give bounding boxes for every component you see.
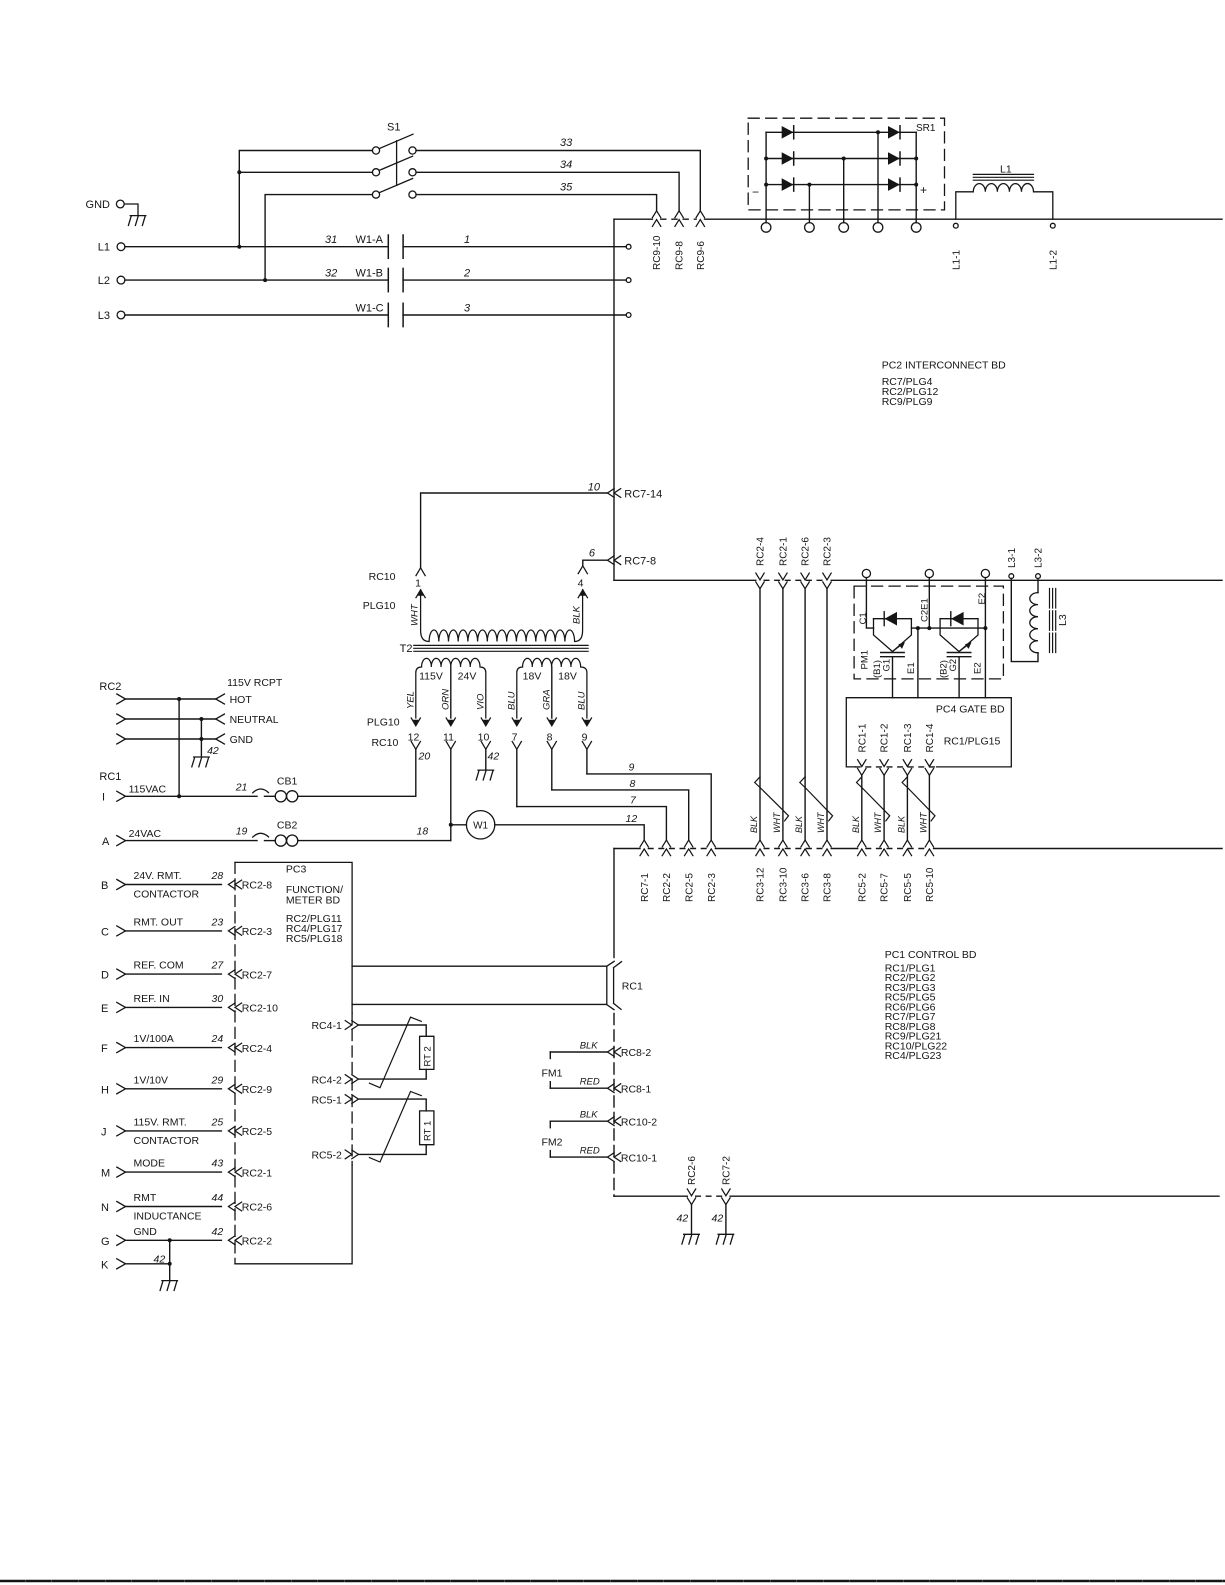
- thermistor RT1 strike: [369, 1092, 421, 1163]
- svg-text:RC1: RC1: [99, 771, 121, 783]
- board PC3 right edge dashed section: [351, 1013, 353, 1165]
- row848 right segment: [934, 848, 1222, 850]
- junction hot: [177, 697, 181, 701]
- svg-text:RC1/PLG15: RC1/PLG15: [944, 736, 1001, 748]
- wire G row: [126, 1239, 222, 1241]
- svg-text:M: M: [101, 1168, 110, 1180]
- connector RC2-3: [707, 840, 715, 856]
- junction E2 bus: [983, 626, 987, 630]
- arrow RC2 neutral: [117, 714, 126, 724]
- svg-text:L1: L1: [98, 242, 110, 254]
- wire C row: [126, 930, 222, 932]
- connector RC10-1: [608, 1153, 621, 1162]
- svg-text:RC5-7: RC5-7: [880, 873, 891, 902]
- ground RC7-2: [716, 1234, 733, 1244]
- wire RC1-1 down: [861, 775, 863, 840]
- svg-text:W1-B: W1-B: [356, 267, 384, 279]
- junction pole1/pole2: [237, 170, 241, 174]
- svg-text:BLK: BLK: [749, 815, 759, 833]
- svg-text:31: 31: [325, 234, 337, 246]
- connector RC2-1 pc3: [228, 1168, 241, 1177]
- ground transformer: [476, 770, 493, 780]
- svg-text:BLK: BLK: [580, 1040, 599, 1051]
- svg-text:10: 10: [478, 731, 490, 743]
- wire RC2-3 down: [826, 589, 828, 841]
- receptacle RC10 pin 7 chevron: [512, 742, 521, 750]
- svg-text:28: 28: [211, 870, 224, 882]
- svg-text:RC2-7: RC2-7: [242, 969, 273, 981]
- wire 19: [126, 840, 258, 842]
- SR1 row3 tap: [808, 185, 810, 223]
- connector RC3-6: [801, 840, 809, 856]
- diode D4: [888, 126, 900, 139]
- wire L2 to contact: [125, 279, 388, 281]
- svg-text:CB2: CB2: [277, 820, 298, 832]
- svg-text:RC4-1: RC4-1: [311, 1020, 342, 1032]
- wire S1 pole1 to L1: [239, 151, 372, 247]
- wire RC4-2 to RT2: [358, 1069, 426, 1079]
- connector RC2-5: [685, 840, 693, 856]
- wire J row: [126, 1130, 222, 1132]
- cable RC1 dashed: [613, 1014, 615, 1197]
- connector RC7-8: [608, 556, 621, 565]
- svg-text:L1-2: L1-2: [1048, 250, 1059, 270]
- arrow hot out: [216, 694, 225, 704]
- svg-text:RC2-1: RC2-1: [242, 1167, 273, 1179]
- row848 solid d: [831, 848, 857, 850]
- svg-text:115V: 115V: [419, 671, 443, 683]
- svg-text:29: 29: [211, 1074, 224, 1086]
- SR1 row1 wire: [766, 131, 916, 133]
- wire BLK RC10-2: [550, 1120, 607, 1122]
- junction SR1 right bus row2: [914, 157, 918, 161]
- wire 9 horizontal: [587, 774, 711, 840]
- arrow pin K: [117, 1259, 126, 1269]
- connector RC2-6: [801, 573, 809, 589]
- svg-text:L3: L3: [98, 310, 110, 322]
- PM1 bus: [911, 627, 985, 629]
- svg-text:G1: G1: [881, 659, 892, 672]
- svg-text:19: 19: [236, 826, 248, 838]
- wire RC5-1 to RT1: [358, 1099, 426, 1111]
- SR1 row1 tap: [877, 132, 879, 222]
- svg-text:27: 27: [211, 960, 225, 972]
- svg-text:10: 10: [588, 482, 601, 494]
- junction neutral: [199, 717, 203, 721]
- svg-text:WHT: WHT: [873, 811, 883, 833]
- arrow pin B: [117, 880, 126, 890]
- svg-text:25: 25: [211, 1116, 224, 1128]
- transformer T2 primary winding: [421, 590, 583, 642]
- connector RC2-8 pc3: [228, 880, 241, 889]
- connector RC10-2: [608, 1117, 621, 1126]
- svg-text:PLG10: PLG10: [367, 717, 400, 729]
- wire E row: [126, 1006, 222, 1008]
- junction SR1 row1 tap: [876, 130, 880, 134]
- svg-text:WHT: WHT: [410, 603, 421, 626]
- arrow neutral out: [216, 714, 225, 724]
- wire GND terminal to ground: [124, 204, 138, 215]
- svg-text:21: 21: [235, 781, 248, 793]
- wire L3-1: [1011, 579, 1038, 662]
- svg-text:GND: GND: [86, 199, 111, 211]
- svg-text:L3: L3: [1057, 614, 1069, 626]
- svg-text:WHT: WHT: [816, 811, 826, 833]
- wire K row: [126, 1263, 170, 1265]
- svg-text:115VAC: 115VAC: [129, 784, 167, 796]
- svg-text:BLU: BLU: [506, 691, 517, 710]
- terminal L1: [117, 243, 125, 251]
- wire gnd: [126, 738, 216, 740]
- connector RC5-2: [858, 840, 866, 856]
- wire 12: [495, 825, 644, 841]
- svg-text:GND: GND: [134, 1226, 158, 1238]
- switch S1 pole3 contacts: [372, 191, 379, 198]
- svg-text:BLK: BLK: [851, 815, 861, 833]
- svg-text:H: H: [101, 1084, 109, 1096]
- connector RC2-2 pc3: [228, 1236, 241, 1245]
- svg-text:RC7-1: RC7-1: [640, 873, 651, 902]
- terminal wire 2: [626, 278, 631, 283]
- connector RC2-6 gnd: [687, 1189, 695, 1205]
- svg-text:RC2-5: RC2-5: [242, 1126, 273, 1138]
- wire 11 to 24VAC: [450, 749, 452, 840]
- connector RC9-10: [652, 211, 660, 227]
- terminal wire 3: [626, 313, 631, 318]
- wire hot to 115VAC: [178, 699, 180, 796]
- junction C2E1 bus: [927, 626, 931, 630]
- svg-text:+: +: [920, 183, 927, 197]
- svg-text:RT 1: RT 1: [422, 1121, 433, 1141]
- svg-text:FM2: FM2: [542, 1136, 563, 1148]
- main line left segment: [614, 218, 652, 220]
- wire 1: [403, 246, 626, 248]
- svg-text:42: 42: [712, 1213, 724, 1225]
- transformer T2 secondary tap GRA: [551, 667, 553, 718]
- arrow pin G: [117, 1235, 126, 1245]
- svg-text:CONTACTOR: CONTACTOR: [134, 1135, 200, 1147]
- terminal C1: [862, 569, 870, 577]
- svg-text:YEL: YEL: [405, 691, 416, 709]
- wire RC2-6 down: [804, 589, 806, 841]
- svg-text:RC5-5: RC5-5: [903, 873, 914, 902]
- wire F row: [126, 1047, 222, 1049]
- connector RC2-3: [823, 573, 831, 589]
- diode D1: [782, 126, 794, 139]
- wire D row: [126, 973, 222, 975]
- svg-text:RC1-1: RC1-1: [857, 723, 868, 752]
- svg-text:RC8-1: RC8-1: [621, 1083, 652, 1095]
- svg-text:RC7-2: RC7-2: [722, 1156, 733, 1185]
- connector RC9-6: [696, 211, 704, 227]
- svg-text:GND: GND: [230, 734, 254, 746]
- plug PLG10 pin 8 arrow: [547, 718, 556, 726]
- wire N row: [126, 1206, 222, 1208]
- svg-text:REF. IN: REF. IN: [134, 993, 170, 1005]
- ground at GND terminal: [128, 216, 145, 226]
- svg-text:RC2-9: RC2-9: [242, 1084, 273, 1096]
- diode D6: [888, 178, 900, 191]
- junction on L1: [237, 245, 241, 249]
- motor FM1 stub upper: [549, 1052, 551, 1059]
- wire RED RC8-1: [550, 1087, 607, 1089]
- svg-text:B: B: [101, 880, 108, 892]
- wire 42 from pin 10: [485, 749, 487, 769]
- svg-text:RC8-2: RC8-2: [621, 1047, 652, 1059]
- svg-text:N: N: [101, 1202, 109, 1214]
- svg-text:18V: 18V: [523, 671, 542, 683]
- module PM1 box: [854, 586, 1003, 679]
- svg-text:L1-1: L1-1: [951, 250, 962, 270]
- junction hot 115VAC: [177, 794, 181, 798]
- svg-text:RC5-1: RC5-1: [311, 1094, 342, 1106]
- svg-text:PC4 GATE BD: PC4 GATE BD: [936, 703, 1005, 715]
- inductor L1 core: [973, 173, 1033, 175]
- wire 21: [126, 795, 258, 797]
- row848 dashed e: [866, 848, 925, 850]
- SR1 row3 wire: [766, 184, 916, 186]
- svg-text:L1: L1: [1000, 164, 1012, 176]
- svg-text:RC2: RC2: [99, 681, 121, 693]
- bus PC3 lower: [352, 1003, 607, 1005]
- SR1 terminal 2: [805, 223, 815, 233]
- breaker CB1: [253, 789, 269, 793]
- connector RC4-1: [345, 1021, 358, 1030]
- svg-text:BLU: BLU: [576, 691, 587, 710]
- inductor L1 winding: [956, 184, 1053, 220]
- wire 9 vertical: [586, 749, 588, 774]
- svg-text:RC1: RC1: [622, 981, 643, 993]
- svg-text:HOT: HOT: [230, 694, 253, 706]
- svg-text:BLK: BLK: [580, 1110, 599, 1121]
- junction on L2: [263, 278, 267, 282]
- wire 8 horizontal: [552, 790, 689, 840]
- plug PLG10 pin 7 arrow: [512, 718, 521, 726]
- svg-text:30: 30: [212, 993, 224, 1005]
- SR1 terminal 1: [761, 223, 771, 233]
- svg-text:24VAC: 24VAC: [129, 828, 162, 840]
- transformer T2 secondary tap ORN: [450, 667, 452, 718]
- svg-text:I: I: [102, 792, 105, 804]
- connector RC3-10: [779, 840, 787, 856]
- svg-text:RC2-5: RC2-5: [684, 873, 695, 902]
- svg-text:RC9-6: RC9-6: [696, 241, 707, 270]
- svg-text:RC1-2: RC1-2: [880, 723, 891, 752]
- terminal L1-1: [953, 223, 958, 228]
- svg-text:42: 42: [154, 1254, 166, 1266]
- wire B row: [126, 884, 222, 886]
- SR1 row2 wire: [766, 158, 916, 160]
- terminal C2E1: [925, 569, 933, 577]
- twist pair RC3-12/RC3-10: [755, 777, 789, 821]
- svg-text:RMT. OUT: RMT. OUT: [134, 916, 184, 928]
- cable bundle RC1 marks: [607, 961, 622, 1009]
- wire L3 to contact: [125, 314, 388, 316]
- connector RC5-1: [345, 1095, 358, 1104]
- plug PLG10 pin 12 arrow: [411, 718, 420, 726]
- wire 10: [421, 493, 608, 568]
- row848 dashed a: [648, 848, 707, 850]
- svg-text:RC4/PLG23: RC4/PLG23: [885, 1050, 942, 1062]
- wire RC2-1 down: [782, 589, 784, 841]
- wire RC1-4 down: [928, 775, 930, 840]
- svg-text:RC2-2: RC2-2: [662, 873, 673, 902]
- svg-text:F: F: [101, 1043, 108, 1055]
- svg-text:RC1-3: RC1-3: [903, 723, 914, 752]
- svg-text:1V/100A: 1V/100A: [134, 1033, 174, 1045]
- connector RC2-6 pc3: [228, 1202, 241, 1211]
- svg-text:BLK: BLK: [794, 815, 804, 833]
- svg-text:PLG10: PLG10: [363, 600, 396, 612]
- svg-text:C: C: [101, 926, 109, 938]
- svg-text:RED: RED: [580, 1077, 600, 1088]
- arrow RC2 hot: [117, 694, 126, 704]
- svg-text:42: 42: [207, 745, 219, 757]
- svg-text:34: 34: [560, 159, 572, 171]
- plug PLG10 pin 11 arrow: [446, 718, 455, 726]
- diode D5: [888, 152, 900, 165]
- arrow gnd out: [216, 734, 225, 744]
- connector RC7-1: [640, 840, 648, 856]
- receptacle RC10 pin 10 chevron: [481, 742, 490, 750]
- svg-text:32: 32: [325, 267, 337, 279]
- wire M row: [126, 1171, 222, 1173]
- svg-text:REF. COM: REF. COM: [134, 960, 184, 972]
- connector RC2-5 pc3: [228, 1127, 241, 1136]
- svg-text:RMT: RMT: [134, 1192, 157, 1204]
- svg-text:CB1: CB1: [277, 775, 298, 787]
- svg-text:6: 6: [589, 548, 596, 560]
- transformer T2 core: [414, 644, 588, 646]
- contact W1-B: [387, 268, 389, 291]
- twist pair RC5-2/RC5-7: [857, 777, 890, 821]
- svg-text:RC7-14: RC7-14: [624, 488, 662, 500]
- svg-text:−: −: [752, 185, 759, 199]
- svg-text:11: 11: [443, 731, 454, 743]
- svg-text:C1: C1: [858, 612, 869, 624]
- wire S1 pole2 to junction: [239, 171, 372, 173]
- board PC4 bottom dashed: [855, 766, 936, 768]
- svg-text:WHT: WHT: [918, 811, 928, 833]
- transformer T2 secondary 115V/24V winding: [416, 658, 486, 718]
- connector RC1-2: [880, 760, 888, 776]
- receptacle RC10 pin 8 chevron: [547, 742, 556, 750]
- svg-text:NEUTRAL: NEUTRAL: [230, 714, 279, 726]
- connector RC3-12: [756, 840, 764, 856]
- motor FM2 stub upper: [549, 1121, 551, 1128]
- arrow pin F: [117, 1043, 126, 1053]
- svg-text:1: 1: [415, 577, 421, 589]
- terminal E2: [981, 569, 989, 577]
- connector RC1-4: [925, 760, 933, 776]
- svg-text:24V: 24V: [458, 671, 477, 683]
- connector RC2-10 pc3: [228, 1003, 241, 1012]
- svg-text:1: 1: [464, 234, 470, 246]
- wire S1 pole3 to L2: [265, 195, 372, 281]
- switch S1 pole1 contacts: [372, 147, 379, 154]
- svg-text:RED: RED: [580, 1146, 600, 1157]
- svg-text:RC1-4: RC1-4: [925, 723, 936, 752]
- wire 2: [403, 279, 626, 281]
- wire 18: [298, 840, 451, 842]
- svg-text:K: K: [101, 1259, 109, 1271]
- svg-text:ORN: ORN: [440, 689, 451, 710]
- wire 3: [403, 314, 626, 316]
- connector RC5-7: [880, 840, 888, 856]
- svg-text:RC2-8: RC2-8: [242, 880, 273, 892]
- row848 dashed c: [764, 848, 823, 850]
- svg-text:E1: E1: [906, 662, 917, 674]
- transformer T2 secondary 18V/18V winding: [517, 658, 587, 718]
- svg-text:4: 4: [578, 577, 584, 589]
- svg-text:RC7-8: RC7-8: [624, 556, 656, 568]
- wire 20 horizontal: [298, 795, 416, 797]
- SR1 terminal 4: [873, 223, 883, 233]
- connector RC2-3 pc3: [228, 927, 241, 936]
- svg-text:115V RCPT: 115V RCPT: [227, 677, 283, 689]
- svg-text:42: 42: [677, 1213, 689, 1225]
- wire neutral: [126, 718, 216, 720]
- bus PC3 upper: [352, 965, 607, 967]
- row848 solid b: [715, 848, 755, 850]
- ground rcpt: [192, 757, 209, 767]
- wire RC5-2 to RT1: [358, 1145, 426, 1155]
- svg-text:18: 18: [417, 826, 429, 838]
- switch S1 pole2 blade: [379, 156, 412, 170]
- svg-text:24V. RMT.: 24V. RMT.: [134, 870, 182, 882]
- svg-text:BLK: BLK: [896, 815, 906, 833]
- connector RC3-8: [823, 840, 831, 856]
- board PC4 box: [846, 698, 1011, 767]
- svg-text:SR1: SR1: [916, 123, 936, 134]
- svg-text:MODE: MODE: [134, 1158, 166, 1170]
- svg-text:S1: S1: [387, 122, 400, 134]
- svg-text:RC3-8: RC3-8: [823, 873, 834, 902]
- svg-text:RC2-1: RC2-1: [779, 537, 790, 566]
- plug PLG10 pin 4 arrow: [578, 590, 587, 598]
- terminal L3: [117, 311, 125, 319]
- svg-text:24: 24: [211, 1033, 224, 1045]
- svg-text:D: D: [101, 970, 109, 982]
- svg-text:9: 9: [629, 762, 635, 774]
- cable row848 corner down: [613, 849, 615, 958]
- bottom line left: [614, 1195, 687, 1197]
- arrow RC1 A: [117, 836, 126, 846]
- border bottom dashed: [0, 1580, 1225, 1582]
- svg-text:L3-1: L3-1: [1007, 548, 1018, 568]
- svg-text:1V/10V: 1V/10V: [134, 1074, 168, 1086]
- ground PC3: [160, 1281, 177, 1291]
- svg-text:METER BD: METER BD: [286, 895, 341, 907]
- terminal GND: [116, 200, 124, 208]
- svg-text:RC2-3: RC2-3: [707, 873, 718, 902]
- svg-text:18V: 18V: [558, 671, 577, 683]
- svg-text:RC2-6: RC2-6: [801, 537, 812, 566]
- plug PLG10 pin 4 chevron: [578, 566, 587, 574]
- svg-text:RC3-6: RC3-6: [801, 873, 812, 902]
- terminal wire 1: [626, 244, 631, 249]
- wire C1 lead: [866, 578, 873, 629]
- svg-text:GRA: GRA: [541, 689, 552, 710]
- motor FM1 stub lower: [549, 1082, 551, 1089]
- svg-text:W1: W1: [473, 821, 488, 832]
- switch S1 pole1 blade: [379, 134, 413, 148]
- junction G: [168, 1238, 172, 1242]
- switch S1 link bar: [396, 141, 398, 186]
- svg-text:L3-2: L3-2: [1034, 548, 1045, 568]
- connector RC7-2 gnd: [722, 1189, 730, 1205]
- receptacle RC10 pin 12 chevron: [411, 742, 420, 750]
